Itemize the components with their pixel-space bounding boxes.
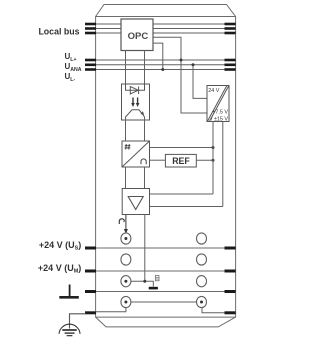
wire DAC to amplifier right bbox=[144, 167, 146, 189]
bus terminal ticks left (local bus) bbox=[85, 24, 96, 33]
svg-text:Local bus: Local bus bbox=[38, 27, 79, 37]
REF reference box U4 bbox=[165, 154, 196, 167]
wire rail1 to amplifier bbox=[150, 193, 214, 195]
wire OPC to UL+ and 24V converter input bbox=[153, 37, 207, 113]
U supply ticks right bbox=[225, 60, 236, 70]
amplifier triangle bbox=[128, 197, 143, 210]
node UANA junction bbox=[192, 63, 195, 66]
wire 24V output rail 1 bbox=[212, 122, 214, 195]
terminal circle row2 right bbox=[197, 254, 207, 265]
wire optocoupler to DAC left bbox=[125, 117, 127, 141]
svg-text:REF: REF bbox=[172, 156, 190, 166]
functional earth symbol bbox=[59, 324, 80, 334]
terminal circle row2 left bbox=[121, 254, 131, 265]
U supply lines bbox=[85, 60, 236, 70]
wire rail2 to amplifier bbox=[150, 206, 223, 208]
node OPC/UL- junction bbox=[161, 68, 164, 71]
wire DAC to REF bbox=[150, 159, 166, 161]
amplifier U6 box bbox=[122, 189, 149, 215]
terminal circle row3 left bbox=[121, 276, 131, 287]
local bus lines bbox=[85, 24, 236, 33]
module housing outline bbox=[96, 17, 236, 327]
wire OPC to optocoupler left bbox=[125, 51, 127, 85]
wire UANA to 24V converter input bbox=[193, 65, 207, 99]
wire optocoupler to DAC right bbox=[144, 117, 146, 141]
terminal ticks right rows bbox=[225, 248, 236, 313]
DC/DC converter 24V box U5 bbox=[207, 86, 229, 122]
DAC analog symbol bbox=[141, 159, 146, 164]
terminal circle row4 right bbox=[197, 296, 207, 307]
wire OPC to UL- bbox=[153, 43, 163, 69]
wire OPC to optocoupler right bbox=[144, 51, 146, 85]
terminal circle row1 right bbox=[197, 233, 207, 244]
terminal ticks left rows bbox=[85, 248, 96, 313]
OPC controller box U1 bbox=[121, 19, 153, 51]
terminal row separator 3 bbox=[96, 291, 236, 293]
bus terminal ticks right (local bus) bbox=[225, 24, 236, 33]
optocoupler light arrow 2 bbox=[137, 98, 139, 104]
internal ground tag bbox=[155, 276, 159, 281]
optocoupler LED diode bbox=[130, 87, 138, 95]
U supply ticks left bbox=[85, 60, 96, 70]
analog output symbol bbox=[119, 219, 124, 224]
wire DAC to amplifier left bbox=[125, 167, 127, 189]
terminal circle row1 left bbox=[121, 233, 131, 244]
svg-text:24 V: 24 V bbox=[208, 88, 219, 94]
node OPC/UL+ junction bbox=[180, 59, 183, 62]
wire row4 right terminal to edge bbox=[202, 308, 225, 313]
wire row4 terminals bbox=[131, 301, 197, 303]
terminal circle row3 right bbox=[197, 276, 207, 287]
wire DAC to +supply rail bbox=[150, 147, 214, 149]
optocoupler LED wiring bbox=[126, 84, 145, 90]
functional earth wire bbox=[70, 314, 87, 329]
terminal row bottom line bbox=[96, 316, 236, 318]
terminal row separator 2 bbox=[96, 270, 236, 272]
wire amplifier output arrow bbox=[125, 215, 127, 230]
node amplifier/shield junction bbox=[143, 280, 146, 283]
svg-text:+7.5 V: +7.5 V bbox=[212, 110, 228, 116]
node rail/DAC junction bbox=[212, 146, 215, 149]
wire amplifier to GND net bbox=[144, 215, 146, 282]
node rail/REF junction bbox=[212, 159, 215, 162]
wire shield terminal to internal ground bbox=[131, 281, 153, 286]
wire REF to supply rail bbox=[196, 159, 213, 161]
internal ground bar bbox=[149, 287, 158, 290]
svg-text:OPC: OPC bbox=[128, 31, 149, 42]
terminal row separator 1 bbox=[96, 247, 236, 249]
optocoupler phototransistor bbox=[126, 110, 145, 117]
ground symbol GND label bbox=[69, 285, 71, 297]
optocoupler U2 box bbox=[122, 84, 150, 120]
module top face bbox=[96, 5, 236, 17]
terminal circle row4 left bbox=[121, 296, 131, 307]
optocoupler light arrow 1 bbox=[132, 98, 134, 104]
DAC converter U3 box bbox=[122, 141, 150, 167]
wire row4 left terminal to edge bbox=[96, 308, 126, 312]
wire 24V output rail 2 bbox=[222, 122, 224, 207]
DAC digital symbol bbox=[125, 144, 131, 150]
svg-text:/ ±15 V: / ±15 V bbox=[211, 116, 228, 122]
